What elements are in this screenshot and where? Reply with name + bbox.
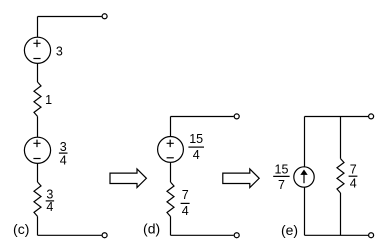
- voltage source V1 (3 V), circle: [24, 37, 50, 63]
- wire: (c) bottom horizontal: [38, 234, 102, 236]
- resistor Rd (7/4 ohm): [167, 182, 174, 216]
- svg-text:15: 15: [275, 163, 289, 177]
- transformation arrow 1 (c to d): [110, 169, 146, 188]
- terminal node: (e) bottom right: [369, 233, 374, 238]
- svg-text:15: 15: [189, 132, 203, 146]
- wire: (c) bottom vertical: [37, 216, 39, 235]
- svg-text:7: 7: [350, 162, 357, 176]
- terminal node: (d) bottom right: [234, 233, 239, 238]
- Vd minus sign: [167, 157, 174, 159]
- svg-text:4: 4: [182, 204, 189, 218]
- value label 15/7 (Ie): fraction bar: [273, 175, 289, 177]
- wire: (c) between V2 and R2: [37, 163, 39, 182]
- svg-text:4: 4: [60, 153, 67, 167]
- wire: (e) bottom horizontal: [305, 234, 369, 236]
- wire: (e) left branch below current source: [304, 187, 306, 235]
- svg-text:4: 4: [193, 148, 200, 162]
- wire: circuit (d) top horizontal: [171, 116, 234, 118]
- transformation arrow 2 (d to e): [223, 169, 259, 188]
- wire: (d) top vertical into source: [170, 117, 172, 137]
- wire: (e) left branch vertical into current source: [304, 117, 306, 168]
- svg-text:7: 7: [278, 178, 285, 192]
- svg-text:3: 3: [60, 140, 67, 154]
- wire: (d) between source and resistor: [170, 162, 172, 182]
- V2 minus sign: [33, 158, 40, 160]
- wire: (e) middle branch bottom: [340, 193, 342, 235]
- V1 plus sign: [33, 40, 40, 48]
- current source arrow head: [300, 170, 307, 175]
- value label 3/4 (R2): fraction bar: [46, 200, 54, 202]
- current source Ie (15/7 A), circle: [294, 167, 314, 187]
- terminal node: (c) top right: [102, 14, 107, 19]
- wire: (c) between V1 and R1: [37, 63, 39, 82]
- svg-text:(d): (d): [143, 220, 160, 236]
- terminal node: (c) bottom right: [102, 233, 107, 238]
- terminal node: (e) top right: [369, 114, 374, 119]
- wire: (d) bottom horizontal: [171, 234, 234, 236]
- wire: (c) top vertical into V1: [37, 17, 39, 38]
- voltage source V2 (3/4 V), circle: [24, 137, 50, 163]
- wire: (d) bottom vertical: [170, 217, 172, 236]
- Vd plus sign: [167, 140, 174, 148]
- svg-text:(e): (e): [281, 222, 298, 238]
- value label 3/4 (V2): fraction bar: [59, 152, 68, 154]
- resistor Re (7/4 ohm): [337, 159, 344, 193]
- value label 7/4 (Rd): fraction bar: [181, 202, 190, 204]
- wire: circuit (c) top horizontal: [38, 16, 102, 18]
- wire: (c) between R1 and V2: [37, 116, 39, 137]
- current source arrow shaft: [303, 174, 305, 183]
- value label 7/4 (Re): fraction bar: [349, 175, 358, 177]
- terminal node: (d) top right: [234, 114, 239, 119]
- svg-text:7: 7: [182, 188, 189, 202]
- svg-text:3: 3: [56, 45, 63, 59]
- svg-text:(c): (c): [13, 221, 29, 237]
- resistor R2 (3/4 ohm): [34, 182, 41, 216]
- value label 15/4 (Vd): fraction bar: [188, 146, 204, 148]
- svg-text:4: 4: [46, 200, 53, 214]
- resistor R1 (1 ohm): [34, 82, 41, 116]
- svg-text:4: 4: [350, 177, 357, 191]
- wire: circuit (e) top horizontal: [305, 116, 369, 118]
- svg-text:1: 1: [45, 93, 52, 107]
- V1 minus sign: [33, 58, 40, 60]
- voltage source Vd (15/4 V), circle: [158, 137, 184, 163]
- wire: (e) middle branch top: [340, 117, 342, 159]
- V2 plus sign: [33, 140, 40, 148]
